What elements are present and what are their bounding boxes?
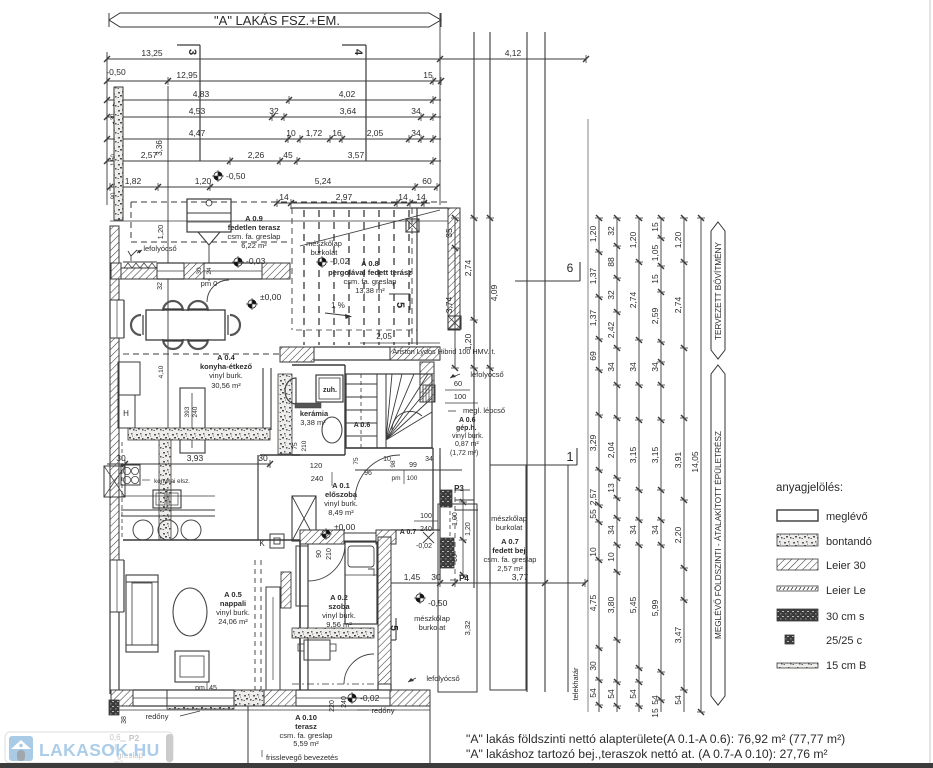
svg-text:30: 30 (196, 267, 203, 275)
svg-text:3,29: 3,29 (588, 434, 598, 451)
svg-text:Leier Le: Leier Le (826, 585, 866, 597)
sill stipple under window (167, 702, 234, 709)
left exterior wall lower plain (110, 612, 119, 694)
svg-text:90: 90 (316, 550, 323, 558)
svg-text:24,06 m²: 24,06 m² (218, 617, 248, 626)
bedroom wardrobe left (296, 546, 308, 606)
legend row 1 meglevo (777, 510, 868, 523)
svg-text:30: 30 (588, 661, 598, 671)
svg-text:3,93: 3,93 (187, 453, 204, 463)
svg-text:6,22 m²: 6,22 m² (241, 241, 267, 250)
svg-text:34: 34 (628, 525, 638, 535)
svg-text:A 0.8: A 0.8 (361, 259, 379, 268)
svg-text:4,75: 4,75 (588, 594, 598, 611)
svg-text:98: 98 (390, 460, 397, 468)
svg-text:lefolyócső: lefolyócső (426, 674, 459, 683)
svg-text:1,72: 1,72 (306, 128, 323, 138)
svg-text:konyha-étkező: konyha-étkező (200, 362, 253, 371)
svg-text:100: 100 (454, 392, 467, 401)
porch door cross (423, 532, 434, 543)
wc oval (322, 417, 342, 443)
svg-text:30 cm s: 30 cm s (826, 611, 865, 623)
svg-text:A 0.6: A 0.6 (459, 417, 476, 424)
small dim cluster above hall (353, 456, 433, 484)
svg-text:3,15: 3,15 (628, 446, 638, 463)
porch walls (390, 448, 455, 580)
dimension line 12,95 / 15 (104, 70, 444, 85)
terrace A 0.10 outline (248, 706, 430, 766)
svg-text:"A" lakás földszinti nettó ala: "A" lakás földszinti nettó alapterülete(… (466, 732, 845, 746)
svg-text:lefolyócső: lefolyócső (470, 370, 503, 379)
svg-text:2,04: 2,04 (606, 441, 616, 458)
svg-text:32: 32 (269, 106, 279, 116)
svg-text:12,95: 12,95 (176, 70, 198, 80)
dining chair right (228, 315, 240, 335)
svg-text:bontandó: bontandó (826, 536, 872, 548)
svg-text:nappali: nappali (220, 599, 246, 608)
svg-text:H: H (123, 409, 129, 418)
svg-text:1,20: 1,20 (628, 231, 638, 248)
left exterior wall hatched mid (110, 338, 119, 560)
label keramia 3,38 (300, 409, 329, 427)
label meszkolap burkolat walkway (414, 614, 450, 632)
label A 0.7 fedett bej (484, 537, 537, 573)
window bedroom bottom (296, 690, 390, 706)
svg-text:pergolával fedett terász: pergolával fedett terász (328, 268, 412, 277)
porch pillar P3 dark (440, 490, 452, 507)
svg-text:34: 34 (606, 362, 616, 372)
svg-text:2,57: 2,57 (588, 488, 598, 505)
dimension line 14 2,97 14 14 (274, 192, 430, 207)
svg-text:anyagjelölés:: anyagjelölés: (776, 482, 843, 494)
svg-text:2,05: 2,05 (367, 128, 384, 138)
svg-text:±0,00: ±0,00 (260, 292, 281, 302)
dining chair left (131, 315, 143, 335)
svg-text:burkolat: burkolat (419, 623, 447, 632)
svg-text:393: 393 (184, 406, 191, 417)
svg-text:Leier 30: Leier 30 (826, 560, 866, 572)
stair right wall hatched (420, 362, 434, 402)
svg-text:3,64: 3,64 (340, 106, 357, 116)
svg-text:1,20: 1,20 (195, 176, 212, 186)
left exterior wall hatched upper (110, 226, 119, 300)
kitchen stove 4 burners (121, 465, 140, 485)
left guide line (106, 52, 108, 205)
svg-text:240: 240 (192, 406, 199, 417)
svg-text:14,05: 14,05 (690, 451, 700, 473)
stair block walls hatched top (280, 347, 314, 362)
svg-text:kerámia: kerámia (300, 409, 329, 418)
svg-text:35: 35 (444, 228, 454, 238)
legend row 5 30cm (777, 609, 865, 623)
bottom wall hatched piers (111, 690, 430, 706)
bedroom right wall hatched (378, 537, 391, 692)
label lefolyocso lower (408, 674, 460, 683)
label redony left (146, 711, 200, 721)
kitchen sink box (104, 466, 125, 497)
svg-text:15 cm B: 15 cm B (826, 660, 866, 672)
svg-text:54: 54 (673, 695, 683, 705)
svg-text:210: 210 (301, 440, 308, 451)
svg-text:vinyl burk.: vinyl burk. (452, 433, 484, 440)
svg-text:3: 3 (186, 49, 198, 55)
vertical dim 2,74 1,20 on guide a (463, 215, 478, 371)
dining chairs top (163, 301, 208, 311)
label K sliding door (259, 534, 284, 548)
svg-text:burkolat: burkolat (496, 523, 524, 532)
svg-text:100: 100 (420, 513, 432, 520)
svg-text:13: 13 (606, 483, 616, 493)
svg-text:240: 240 (420, 526, 432, 533)
label redony right (357, 706, 395, 715)
dining table (146, 310, 225, 340)
svg-text:54: 54 (606, 689, 616, 699)
svg-text:3,57: 3,57 (348, 150, 365, 160)
hall top wall (258, 448, 433, 540)
svg-text:1: 1 (566, 449, 573, 464)
svg-text:3,36: 3,36 (155, 140, 164, 156)
right guide line (439, 13, 441, 205)
svg-text:34: 34 (650, 362, 660, 372)
living room top wall (123, 539, 300, 541)
tall guide line c (526, 32, 528, 692)
pergola slope label 1% (325, 301, 352, 319)
demolition stipple band horizontal (128, 428, 270, 440)
sofa (126, 575, 158, 652)
porch steps (455, 490, 478, 510)
svg-text:10: 10 (588, 547, 598, 557)
sliding door dashed tracks (255, 560, 261, 692)
radiator symbol right of stairs (423, 385, 435, 402)
svg-text:3,80: 3,80 (606, 596, 616, 613)
section marker 5 lower (386, 618, 399, 640)
svg-text:terasz: terasz (295, 722, 317, 731)
dashed terrace pergola boundary (291, 208, 293, 330)
svg-text:mészkőlap: mészkőlap (414, 614, 450, 623)
svg-text:32: 32 (606, 290, 616, 300)
bed (345, 542, 377, 624)
label konyhai elsz (142, 478, 190, 485)
plot boundary grey line (587, 119, 589, 712)
kitchen bar stools (133, 520, 201, 540)
svg-text:fedetlen terasz: fedetlen terasz (228, 223, 281, 232)
bedroom top wall hatched (300, 530, 396, 544)
svg-text:(1,72 m²): (1,72 m²) (450, 450, 478, 457)
svg-text:2,97: 2,97 (336, 192, 353, 202)
svg-text:25/25 c: 25/25 c (826, 635, 863, 647)
dimension line 4,53 32 3,64 34 (104, 106, 441, 121)
dimension line 30 3,93 30 (107, 453, 273, 468)
label A 0.8 pergola terasz (328, 259, 412, 295)
sill line bottom (111, 709, 430, 711)
svg-text:30: 30 (431, 572, 441, 582)
svg-text:13,38 m²: 13,38 m² (355, 286, 385, 295)
svg-text:38: 38 (121, 716, 128, 724)
svg-text:A 0.7: A 0.7 (400, 529, 417, 536)
svg-text:32: 32 (606, 226, 616, 236)
label pm 45 (195, 682, 217, 694)
pergola post top (406, 219, 419, 232)
tall guide line b (489, 32, 491, 588)
rotated dims 220 240 terrace (329, 696, 348, 712)
demolition stipple band bath wall (278, 374, 292, 454)
rotated dims 75 210 bath (292, 440, 308, 451)
level marker -0,03 a (232, 256, 266, 268)
svg-text:vinyl burk.: vinyl burk. (209, 371, 243, 380)
svg-text:3,47: 3,47 (673, 626, 683, 643)
bottom dark bar (0, 763, 933, 768)
svg-text:3,74: 3,74 (444, 296, 454, 313)
section marker 1 (515, 448, 577, 692)
svg-text:frisslevegő bevezetés: frisslevegő bevezetés (266, 753, 338, 762)
svg-text:55: 55 (588, 509, 598, 519)
pergola right wall strip (448, 208, 460, 330)
svg-text:16: 16 (332, 128, 342, 138)
svg-text:A 0.10: A 0.10 (295, 713, 317, 722)
svg-text:A 0.1: A 0.1 (332, 481, 350, 490)
svg-text:1,20: 1,20 (156, 225, 165, 240)
kitchen door arc (207, 280, 229, 302)
label P2 (120, 733, 139, 743)
svg-text:A 0.9: A 0.9 (245, 214, 263, 223)
reference vertical x168 (167, 86, 169, 441)
svg-text:mészkőlap: mészkőlap (306, 239, 342, 248)
vertical dim 4,09 on guide b (486, 215, 499, 371)
level marker -0,50 upper (212, 170, 246, 182)
walkway rect b (490, 465, 526, 690)
label meszkolap burkolat porch (491, 514, 527, 532)
svg-text:előszoba: előszoba (325, 490, 358, 499)
svg-text:csm. fa. greslap: csm. fa. greslap (228, 232, 281, 241)
level marker -0,50 porch (414, 592, 448, 608)
vertical chain 14,05 (690, 215, 705, 715)
living bedroom wall vertical (300, 540, 308, 692)
label A 0.7 small left (400, 513, 438, 550)
stair dashed walk line (360, 374, 362, 448)
svg-text:2,74: 2,74 (673, 296, 683, 313)
kitchen bath wall lines (263, 368, 271, 430)
dimension line 1,82 1,20 5,24 60 (107, 176, 440, 191)
porch pillar P4 dark (440, 538, 454, 568)
svg-text:4,10: 4,10 (158, 365, 165, 378)
bedroom hall door arc (308, 544, 345, 581)
svg-text:telekhatár: telekhatár (571, 667, 580, 700)
kitchen counter edge (121, 496, 215, 516)
level marker +-0,00 kitchen (246, 292, 281, 310)
dimension line 4,47 10 1,72 16 2,05 34 (104, 128, 441, 143)
svg-text:34: 34 (411, 128, 421, 138)
label greslap fragment (109, 733, 143, 768)
vertical chain x661 (650, 215, 665, 718)
svg-text:60: 60 (454, 379, 462, 388)
svg-text:10: 10 (286, 128, 296, 138)
label A 0.10 terasz (280, 713, 333, 748)
svg-text:2,20: 2,20 (673, 526, 683, 543)
svg-text:4,83: 4,83 (193, 89, 210, 99)
svg-text:14: 14 (279, 192, 289, 202)
svg-text:vinyl burk.: vinyl burk. (216, 608, 250, 617)
svg-text:3,91: 3,91 (673, 451, 683, 468)
stairs (346, 374, 432, 448)
svg-text:3,38 m²: 3,38 m² (300, 418, 326, 427)
label megl lepcso (448, 406, 505, 415)
svg-text:TERVEZETT BŐVÍTMÉNY: TERVEZETT BŐVÍTMÉNY (713, 241, 723, 340)
svg-text:"A" lakáshoz tartozó bej.,tera: "A" lakáshoz tartozó bej.,teraszok nettó… (466, 747, 828, 761)
label A 0.4 konyha-etkezo (200, 353, 253, 390)
svg-text:210: 210 (326, 548, 333, 560)
svg-text:1,37: 1,37 (588, 309, 598, 326)
svg-text:1,82: 1,82 (125, 176, 142, 186)
pergola slope diagonal (300, 210, 440, 246)
svg-text:4,02: 4,02 (339, 89, 356, 99)
dims 120 240 hall (310, 461, 332, 486)
svg-text:redőny: redőny (146, 712, 169, 721)
svg-text:69: 69 (588, 351, 598, 361)
svg-text:0,87 m²: 0,87 m² (455, 441, 479, 448)
vertical chain x617 (606, 215, 621, 712)
svg-text:1,20: 1,20 (588, 225, 598, 242)
svg-text:5,59 m²: 5,59 m² (293, 739, 319, 748)
tall guide line d (544, 32, 546, 692)
pergola right edge solid (416, 208, 418, 345)
dimension line 1,45 30 3,77 (382, 572, 588, 587)
svg-text:2,74: 2,74 (628, 291, 638, 308)
level marker -0,02 b (316, 256, 350, 268)
svg-text:6: 6 (567, 261, 574, 275)
svg-text:75: 75 (353, 457, 360, 465)
label A 0.6 geph block (450, 417, 484, 457)
kitchen oven (153, 490, 181, 508)
svg-text:-0,50: -0,50 (226, 171, 246, 181)
svg-text:vinyl burk.: vinyl burk. (324, 499, 358, 508)
level marker -0,02 bottom (346, 692, 380, 704)
porch vertical dim 1,00 1,20 (452, 490, 472, 578)
svg-text:60: 60 (422, 176, 432, 186)
banner TERVEZETT BOVITMENY (711, 222, 725, 359)
label P3 (444, 484, 464, 493)
bathroom walls (292, 365, 345, 455)
svg-text:4: 4 (352, 49, 364, 56)
svg-text:1,20: 1,20 (463, 333, 473, 350)
stair radial treads (386, 374, 432, 440)
svg-text:-0,02: -0,02 (416, 543, 432, 550)
bedroom dashed line bottom (292, 683, 374, 685)
svg-text:A 0.7: A 0.7 (501, 537, 519, 546)
svg-text:5: 5 (394, 302, 406, 308)
svg-text:A 0.4: A 0.4 (217, 353, 235, 362)
svg-text:zuh.: zuh. (323, 387, 337, 394)
svg-text:gép.h.: gép.h. (456, 425, 477, 432)
label frisslevego bevezetes (262, 750, 338, 762)
legend row 4 leier le (777, 585, 866, 597)
page edge grey line (929, 0, 931, 768)
legend row 7 15cm (777, 660, 866, 672)
hall bottom wall line (355, 469, 462, 471)
svg-text:34: 34 (628, 362, 638, 372)
label lefolyocso top (128, 244, 177, 261)
window kitchen top 1 (157, 263, 184, 279)
svg-text:2,26: 2,26 (248, 150, 265, 160)
section marker 6 (515, 261, 580, 281)
svg-text:24: 24 (206, 267, 213, 275)
svg-text:54: 54 (588, 688, 598, 698)
svg-text:1,05: 1,05 (650, 244, 660, 261)
svg-text:120: 120 (310, 461, 323, 470)
svg-text:34: 34 (425, 456, 433, 463)
terrace top edge line (110, 220, 448, 222)
svg-text:34: 34 (606, 525, 616, 535)
dimension line 13,25 / 4,12 (104, 48, 589, 63)
svg-text:15: 15 (650, 274, 660, 284)
stair top wall band (314, 347, 440, 360)
svg-text:konyhai elsz.: konyhai elsz. (154, 478, 190, 485)
pergola post bottom (448, 316, 461, 329)
vertical chain x599 (588, 215, 603, 712)
svg-text:32: 32 (157, 282, 164, 290)
svg-text:vinyl burk.: vinyl burk. (322, 611, 356, 620)
svg-text:meglévő: meglévő (826, 511, 868, 523)
svg-text:5,24: 5,24 (315, 176, 332, 186)
label A 0.9 fedetlen terasz (228, 214, 281, 250)
svg-text:13,25: 13,25 (141, 48, 163, 58)
svg-text:4,47: 4,47 (189, 128, 206, 138)
washbasin (285, 378, 296, 404)
svg-text:90: 90 (452, 554, 459, 562)
svg-text:10: 10 (606, 552, 616, 562)
svg-text:1,20: 1,20 (673, 231, 683, 248)
svg-text:csm. fa. greslap: csm. fa. greslap (344, 277, 397, 286)
pergola joist dashed lines (296, 210, 417, 345)
pergola top edge (290, 207, 448, 209)
svg-text:pm: pm (391, 475, 400, 482)
svg-text:1 %: 1 % (331, 301, 345, 310)
vertical chain x684 (673, 215, 688, 712)
svg-text:30: 30 (116, 453, 126, 463)
svg-text:1,37: 1,37 (588, 267, 598, 284)
watermark box lakasok.hu (5, 732, 173, 763)
label A 0.5 nappali (216, 590, 250, 626)
level marker 0,00 hall (320, 522, 355, 540)
door kitchen top (204, 263, 262, 279)
svg-text:3,32: 3,32 (463, 621, 472, 636)
demolition stipple band vertical (159, 440, 171, 540)
left wall vertical dim marks (111, 97, 120, 199)
legend row 6 25/25 (785, 635, 863, 647)
svg-text:-0,02: -0,02 (330, 256, 350, 266)
svg-text:5,45: 5,45 (628, 596, 638, 613)
svg-text:1,20: 1,20 (465, 522, 472, 536)
terrace A 0.9 dashed outline (131, 202, 448, 242)
svg-text:-0,50: -0,50 (106, 67, 126, 77)
svg-text:A 0.6: A 0.6 (354, 422, 371, 429)
svg-text:mészkőlap: mészkőlap (491, 514, 527, 523)
bath dark strip (295, 403, 321, 408)
svg-text:8,49 m²: 8,49 m² (328, 508, 354, 517)
banner MEGLEVO FOLDSZINTI (711, 365, 725, 705)
svg-text:240: 240 (311, 474, 324, 483)
svg-text:2,05: 2,05 (376, 332, 392, 341)
svg-text:240: 240 (341, 696, 348, 708)
shower cabin zuh (316, 375, 343, 402)
armchair living (175, 651, 209, 682)
svg-text:szoba: szoba (328, 602, 350, 611)
svg-text:2,42: 2,42 (606, 321, 616, 338)
svg-text:2,74: 2,74 (463, 259, 473, 276)
svg-text:45: 45 (283, 150, 293, 160)
svg-text:redőny: redőny (372, 706, 395, 715)
label -0,02 bottom (346, 692, 380, 704)
svg-text:14: 14 (416, 192, 426, 202)
